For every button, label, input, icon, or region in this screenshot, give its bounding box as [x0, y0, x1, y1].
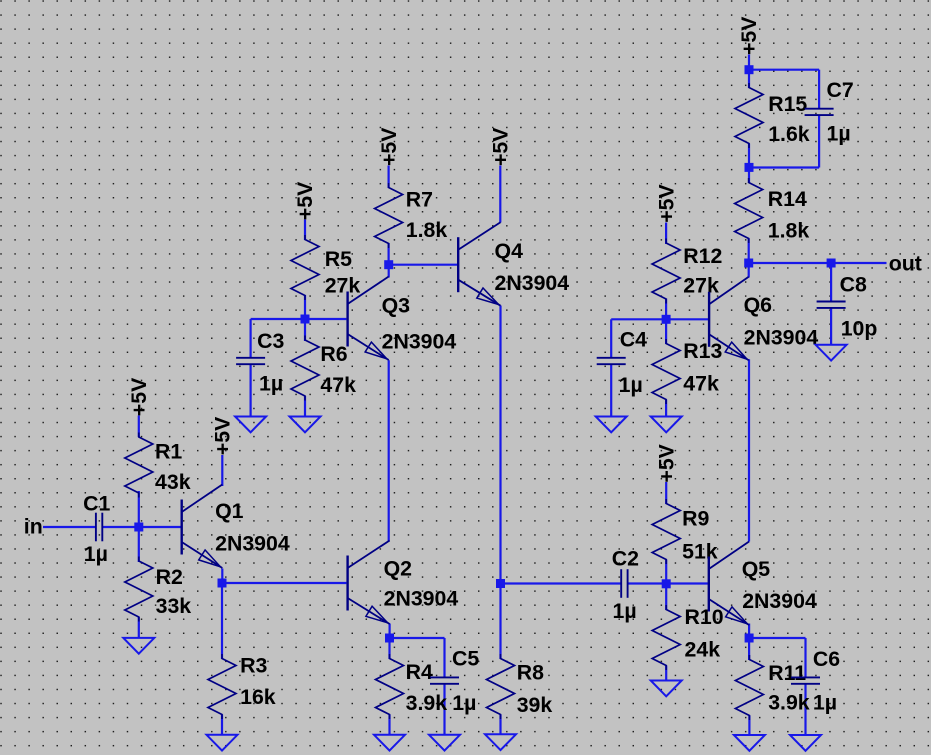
svg-text:C8: C8: [840, 272, 867, 296]
svg-text:39k: 39k: [517, 693, 553, 717]
svg-text:43k: 43k: [155, 470, 191, 494]
transistor Q5: [709, 542, 817, 626]
svg-text:1µ: 1µ: [613, 599, 637, 623]
wire: [221, 455, 223, 486]
node +5V rail: [745, 65, 754, 74]
svg-text:C1: C1: [83, 491, 110, 515]
svg-text:Q5: Q5: [742, 557, 771, 581]
wire: [665, 584, 667, 611]
wire: [748, 55, 750, 71]
wire: [222, 582, 346, 584]
svg-text:+5V: +5V: [293, 181, 317, 220]
svg-text:3.9k: 3.9k: [406, 691, 448, 715]
ground for C5: [429, 735, 460, 751]
svg-text:R5: R5: [325, 247, 352, 271]
wire: [748, 168, 750, 184]
resistor R2: [125, 557, 191, 622]
wire: [304, 295, 306, 319]
ground for R2: [123, 638, 154, 654]
wire: [665, 223, 667, 245]
node base of Q5: [662, 579, 671, 588]
svg-text:R10: R10: [685, 605, 724, 629]
svg-text:Q3: Q3: [382, 293, 411, 317]
svg-text:1µ: 1µ: [84, 542, 108, 566]
resistor R1: [125, 433, 191, 498]
node out node: [744, 259, 753, 268]
wire: [221, 569, 223, 584]
power flag +5V for R7: [377, 127, 401, 166]
wire: [388, 166, 390, 189]
svg-text:Q6: Q6: [744, 293, 773, 317]
svg-text:1µ: 1µ: [452, 691, 476, 715]
svg-text:R4: R4: [406, 660, 433, 684]
svg-text:24k: 24k: [685, 638, 721, 662]
wire: [748, 70, 750, 88]
svg-text:R6: R6: [320, 342, 347, 366]
resistor R5: [291, 235, 360, 300]
wire: [103, 526, 181, 528]
svg-text:C4: C4: [620, 328, 647, 352]
svg-text:27k: 27k: [683, 274, 719, 298]
svg-text:out: out: [889, 251, 922, 275]
wire: [830, 308, 832, 346]
wire: [43, 526, 95, 528]
ground for R13: [651, 417, 682, 433]
node emitter node Q1: [218, 579, 227, 588]
svg-text:2N3904: 2N3904: [742, 589, 817, 613]
svg-text:C3: C3: [257, 329, 284, 353]
resistor R12: [652, 239, 722, 304]
ground for R10: [651, 681, 682, 697]
wire: [665, 319, 667, 344]
wire: [499, 166, 501, 223]
svg-text:33k: 33k: [156, 594, 192, 618]
svg-text:R13: R13: [683, 339, 722, 363]
wire: [443, 684, 445, 735]
transistor Q3: [348, 277, 457, 361]
power flag +5V for R5: [293, 181, 317, 220]
power flag +5V for Q1: [211, 416, 235, 455]
svg-text:1µ: 1µ: [827, 122, 851, 146]
wire: [138, 617, 140, 639]
wire: [665, 666, 667, 681]
resistor R14: [735, 178, 810, 243]
svg-text:+5V: +5V: [377, 127, 401, 166]
svg-text:1.8k: 1.8k: [406, 218, 448, 242]
wire: [221, 715, 223, 736]
resistor R6: [291, 336, 356, 401]
svg-text:C6: C6: [813, 647, 840, 671]
wire: [804, 684, 806, 736]
svg-text:R3: R3: [240, 654, 267, 678]
svg-text:R14: R14: [768, 187, 807, 211]
wire: [610, 364, 612, 416]
svg-text:Q1: Q1: [215, 499, 244, 523]
svg-text:+5V: +5V: [489, 127, 513, 166]
wire: [443, 638, 445, 677]
capacitor C7: [805, 78, 854, 145]
resistor R8: [487, 654, 553, 719]
wire: [665, 400, 667, 417]
resistor R7: [375, 183, 448, 248]
wire: [748, 638, 750, 660]
svg-text:R9: R9: [682, 507, 709, 531]
svg-text:2N3904: 2N3904: [495, 271, 570, 295]
resistor R3: [208, 654, 276, 719]
ground for C8: [816, 345, 847, 361]
wire: [499, 584, 501, 660]
resistor R13: [652, 339, 722, 404]
wire: [250, 364, 252, 417]
svg-text:1µ: 1µ: [619, 373, 643, 397]
svg-text:3.9k: 3.9k: [768, 691, 810, 715]
ground for R4: [374, 735, 405, 751]
power flag +5V top supply: [737, 16, 761, 55]
node C8 node: [827, 259, 836, 268]
svg-text:1.6k: 1.6k: [768, 122, 810, 146]
power flag +5V for R1: [127, 377, 151, 416]
svg-text:Q2: Q2: [384, 557, 412, 581]
node emitter node Q4: [496, 579, 505, 588]
wire: [250, 319, 252, 358]
wire: [818, 70, 820, 109]
transistor Q2: [348, 541, 459, 625]
power flag +5V for Q4: [489, 127, 513, 166]
wire: [748, 263, 750, 278]
wire: [388, 715, 390, 736]
capacitor C8: [817, 272, 878, 340]
wire: [388, 638, 390, 659]
ground for C4: [596, 417, 627, 433]
wire: [748, 716, 750, 736]
svg-text:+5V: +5V: [127, 377, 151, 416]
wire: [138, 527, 140, 562]
resistor R4: [376, 654, 448, 719]
wire: [748, 239, 750, 264]
node emitter node Q2: [385, 634, 394, 643]
ground for R3: [207, 735, 238, 751]
resistor R11: [735, 655, 809, 720]
svg-text:47k: 47k: [320, 373, 356, 397]
wire: [501, 582, 622, 584]
wire: [138, 416, 140, 438]
svg-text:C2: C2: [612, 547, 639, 571]
wire: [610, 319, 612, 358]
wire: [666, 318, 709, 320]
svg-text:10p: 10p: [841, 317, 878, 341]
svg-text:2N3904: 2N3904: [382, 330, 457, 354]
wire: [748, 624, 750, 639]
resistor R10: [652, 605, 723, 670]
port label in: [24, 514, 43, 538]
wire: [389, 624, 391, 639]
wire: [304, 396, 306, 417]
wire: [390, 637, 445, 639]
wire: [251, 318, 347, 320]
transistor Q1: [182, 485, 290, 569]
svg-text:in: in: [24, 514, 43, 538]
svg-text:+5V: +5V: [654, 184, 678, 223]
wire: [665, 299, 667, 320]
svg-text:1µ: 1µ: [259, 371, 283, 395]
wire: [388, 243, 390, 265]
svg-text:2N3904: 2N3904: [215, 532, 290, 556]
wire: [138, 491, 140, 527]
wire: [388, 360, 390, 541]
capacitor C4: [597, 328, 647, 398]
wire: [748, 359, 750, 541]
transistor Q4: [458, 222, 569, 306]
wire: [499, 306, 501, 584]
svg-text:+5V: +5V: [654, 443, 678, 482]
wire: [749, 262, 887, 264]
wire: [221, 583, 223, 659]
svg-text:2N3904: 2N3904: [384, 587, 459, 611]
svg-text:C7: C7: [827, 78, 854, 102]
ground for R6: [290, 417, 321, 433]
resistor R9: [652, 499, 718, 564]
svg-text:27k: 27k: [325, 274, 361, 298]
node emitter node Q5: [745, 634, 754, 643]
svg-text:51k: 51k: [682, 540, 718, 564]
ground for R11: [734, 735, 765, 751]
wire: [665, 482, 667, 504]
node base of Q3: [301, 315, 310, 324]
transistor Q6: [709, 277, 818, 361]
node R15/R14 node: [745, 163, 754, 172]
wire: [749, 637, 805, 639]
wire: [748, 144, 750, 168]
wire: [665, 560, 667, 584]
wire: [499, 715, 501, 735]
wire: [818, 115, 820, 168]
node base of Q1: [134, 523, 143, 532]
resistor R15: [735, 83, 810, 148]
svg-text:Q4: Q4: [495, 239, 524, 263]
svg-text:C5: C5: [452, 646, 479, 670]
capacitor C3: [236, 329, 284, 396]
wire: [804, 638, 806, 677]
wire: [304, 220, 306, 241]
wire: [830, 263, 832, 302]
wire: [628, 582, 708, 584]
ground for R8: [485, 734, 516, 750]
wire: [304, 319, 306, 341]
svg-text:R11: R11: [768, 661, 806, 685]
ground for C6: [790, 735, 821, 751]
capacitor C6: [791, 647, 840, 714]
wire: [389, 264, 458, 266]
wire: [611, 318, 666, 320]
capacitor C5: [430, 646, 479, 715]
power flag +5V for R12: [654, 184, 678, 223]
port label out: [889, 251, 922, 275]
svg-text:R2: R2: [156, 565, 183, 589]
svg-text:1µ: 1µ: [813, 691, 837, 715]
svg-text:R12: R12: [683, 244, 722, 268]
svg-text:16k: 16k: [240, 685, 276, 709]
power flag +5V for R9: [654, 443, 678, 482]
node base of Q6: [662, 315, 671, 324]
wire: [388, 265, 390, 278]
svg-text:47k: 47k: [683, 372, 719, 396]
node base node Q4: [384, 260, 393, 269]
svg-text:R15: R15: [768, 92, 807, 116]
svg-text:1.8k: 1.8k: [768, 219, 810, 243]
svg-text:+5V: +5V: [737, 16, 761, 55]
ground for C3: [235, 417, 266, 433]
capacitor C1: [83, 491, 110, 566]
svg-text:R7: R7: [406, 188, 433, 212]
svg-text:+5V: +5V: [211, 416, 235, 455]
wire: [749, 69, 819, 71]
wire: [749, 166, 819, 168]
svg-text:R1: R1: [155, 440, 182, 464]
svg-text:R8: R8: [517, 661, 544, 685]
svg-text:2N3904: 2N3904: [744, 325, 819, 349]
capacitor C2: [612, 547, 639, 624]
